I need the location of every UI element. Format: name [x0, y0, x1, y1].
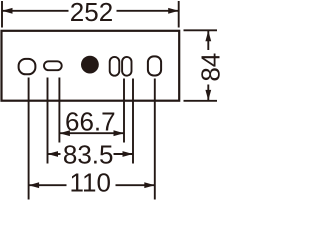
- svg-text:252: 252: [70, 0, 113, 27]
- arrowhead 252 left: [2, 8, 13, 14]
- right vertical rounded oval hole: [148, 56, 161, 75]
- arrowhead 110 left: [29, 182, 39, 188]
- 66.7 dimension line: [59, 132, 124, 134]
- 84 extension line top: [184, 29, 218, 31]
- arrowhead 83.5 left: [48, 151, 59, 157]
- svg-text:110: 110: [69, 168, 110, 198]
- extension line slot left end down to 83.5: [47, 78, 49, 164]
- extension line from left oval down to 110: [28, 78, 30, 200]
- extension line down to 83.5: [132, 79, 134, 164]
- extension line slot right end down to 66.7: [58, 78, 60, 143]
- vertical slot B: [122, 57, 131, 76]
- 252 dimension line right segment: [117, 10, 179, 12]
- arrowhead 83.5 right: [123, 151, 134, 157]
- horizontal slot hole: [44, 61, 62, 70]
- 84 dimension line bottom segment: [207, 85, 209, 101]
- svg-text:83.5: 83.5: [63, 140, 114, 170]
- 252 extension line left: [1, 1, 3, 28]
- arrowhead 84 down: [205, 90, 211, 101]
- fixture outline rectangle: [2, 31, 180, 101]
- vertical slot A: [110, 57, 120, 76]
- 252 dimension line left segment: [2, 10, 69, 12]
- 110 dimension line left segment: [29, 184, 67, 186]
- arrowhead 66.7 right: [114, 130, 125, 136]
- arrowhead 110 right: [144, 182, 155, 188]
- svg-text:84: 84: [196, 53, 226, 82]
- arrowhead 66.7 left: [59, 130, 70, 136]
- 83.5 dimension line right segment: [114, 153, 134, 155]
- arrowhead 252 right: [168, 8, 179, 14]
- 110 dimension line right segment: [116, 184, 155, 186]
- filled circle knockout: [81, 56, 99, 74]
- extension line right oval down to 110: [154, 79, 156, 200]
- extension line vertical slot down to 66.7: [123, 79, 125, 143]
- mounting hole left rounded oval: [19, 59, 36, 74]
- 252 extension line right: [178, 1, 180, 28]
- 83.5 dimension line left segment: [48, 153, 61, 155]
- svg-text:66.7: 66.7: [65, 107, 116, 137]
- 84 extension line bottom: [184, 100, 218, 102]
- arrowhead 84 up: [205, 31, 211, 42]
- 84 dimension line top segment: [207, 31, 209, 50]
